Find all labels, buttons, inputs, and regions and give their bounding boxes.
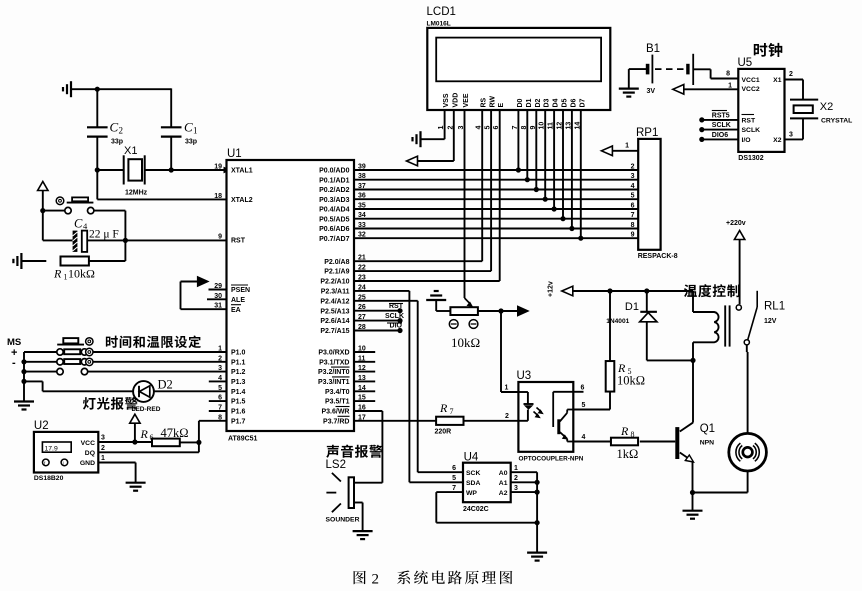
wire P3.1 stub [354,361,375,363]
svg-text:P1.2: P1.2 [231,369,246,376]
svg-text:5: 5 [582,402,586,409]
svg-text:P3.4/T0: P3.4/T0 [325,389,350,396]
wire button ground bus [21,352,26,402]
svg-text:RW: RW [490,96,497,108]
svg-text:1: 1 [64,273,68,282]
svg-text:DS18B20: DS18B20 [34,475,64,482]
node relay-D1-Q1 junction [690,358,695,363]
crystal X1 [124,155,145,184]
battery MS label [7,337,21,369]
svg-text:U5: U5 [738,57,753,69]
U3 phototransistor [553,392,573,442]
svg-text:12: 12 [557,122,564,130]
svg-text:R: R [439,401,448,415]
wire U2 GND [98,463,135,483]
resistor R8 1k [611,438,638,446]
relay RL1 coil [693,305,730,346]
resistor R7 220R [436,417,519,425]
svg-text:P2.3/A11: P2.3/A11 [321,289,350,296]
wire U3 pin6 stub [573,391,583,393]
svg-text:33p: 33p [185,139,197,146]
relay RL1 switch [736,291,757,345]
wire P1.5 stub [209,400,227,402]
svg-text:X2: X2 [773,137,782,144]
svg-text:1: 1 [505,385,509,392]
svg-text:30: 30 [214,293,222,300]
svg-text:SCLK: SCLK [712,122,731,129]
svg-text:5: 5 [631,193,635,200]
crystal X1 label [124,145,148,197]
wire P1.3 stub [209,380,227,382]
svg-text:7: 7 [450,407,454,416]
resistor R6 47k [98,439,199,447]
ground (U4) [527,553,547,561]
svg-text:2: 2 [101,445,105,452]
svg-text:P0.4/AD4: P0.4/AD4 [319,207,349,214]
eeprom U4 body [463,452,511,514]
svg-text:11: 11 [548,122,555,130]
svg-text:D2: D2 [535,98,542,107]
svg-text:D5: D5 [562,98,569,107]
wire top rail [71,88,171,90]
svg-text:9: 9 [530,126,537,130]
node rail-C2 junction [95,87,100,92]
svg-text:U4: U4 [464,452,479,464]
svg-text:SCLK: SCLK [385,313,404,320]
node pot output [498,308,503,313]
resistor-pack RP1 [636,127,678,260]
U1 right pin labels [318,164,366,426]
label wendukongzhi (temperature control) [684,284,740,297]
svg-text:RS: RS [481,97,488,107]
wire U4 A1 [511,480,540,485]
svg-text:2: 2 [631,164,635,171]
svg-text:3: 3 [514,485,518,492]
power arrow U5 VCC2 [673,85,739,95]
ground (U2) [126,483,146,491]
clock U5 DS1302 body [738,57,785,162]
svg-text:19: 19 [214,164,222,171]
resistor R6 label [140,426,189,442]
svg-text:VCC1: VCC1 [742,77,760,84]
temperature sensor U2 DS18B20 [34,432,98,473]
switch button S3 (P1.2) [24,368,227,374]
svg-text:U3: U3 [517,370,532,382]
transistor Q1 label [700,423,715,447]
svg-text:RST5: RST5 [712,113,730,120]
wire switch to motor [746,345,749,433]
svg-text:P2.0/A8: P2.0/A8 [324,259,349,266]
caption figure 2 [354,570,513,587]
svg-text:DQ: DQ [85,450,95,457]
svg-text:P0.2/AD2: P0.2/AD2 [319,187,349,194]
led D2 label [132,378,173,414]
svg-text:U1: U1 [227,148,242,160]
potentiometer value label [451,335,480,350]
svg-text:PSEN: PSEN [231,287,250,294]
svg-text:2: 2 [372,572,380,588]
svg-text:VCC: VCC [81,440,95,447]
wire P2.4 to SCK [354,301,463,472]
wire U4 A0 [511,472,537,552]
optocoupler U3 body [517,370,584,463]
svg-text:RP1: RP1 [636,127,658,139]
crystal X2 label [820,101,853,125]
svg-text:31: 31 [214,303,222,310]
svg-text:P3.7/RD: P3.7/RD [323,418,349,425]
svg-text:10kΩ: 10kΩ [68,267,95,281]
wire P3.6 to sounder [354,411,383,483]
led D2 [133,381,226,402]
label shijian (time/limit setting) [106,335,201,348]
svg-text:VEE: VEE [463,93,470,107]
svg-text:P2.7/A15: P2.7/A15 [320,328,349,335]
ground (crystal cap rail) [63,81,71,97]
svg-text:X2: X2 [820,101,833,113]
wire reset button to C4 node [124,211,126,241]
wire P1.4 jog [24,381,133,391]
svg-text:P0.5/AD5: P0.5/AD5 [319,216,349,223]
op-amp U1 AT89C51 body [227,148,355,443]
power arrow EA loop [181,277,227,310]
svg-text:RST: RST [231,238,246,245]
node XTAL1-C1 junction [169,167,174,172]
U2 labels [34,420,105,482]
svg-text:VCC2: VCC2 [742,86,760,93]
svg-text:XTAL1: XTAL1 [231,168,253,175]
svg-text:I/O: I/O [742,137,751,144]
node emitter-motor junction [690,490,695,495]
svg-text:RESPACK-8: RESPACK-8 [638,253,678,260]
power arrow LCD VDD [407,110,454,166]
wire P3.4 stub [354,390,375,392]
svg-text:1: 1 [101,455,105,462]
wire LCD RW [354,110,491,271]
svg-text:18: 18 [214,193,222,200]
wire U5 DIO [699,130,738,142]
svg-text:7: 7 [631,212,635,219]
diode D1 1N4001 [640,291,693,360]
wire LCD data drops D0-D7 [516,110,584,241]
svg-text:C: C [110,120,119,135]
node reset-button junction [40,208,45,213]
node D1 top junction [644,288,649,293]
wire PSEN stub [209,289,227,291]
net RST stub [354,303,404,313]
svg-text:13: 13 [565,122,572,130]
svg-text:A0: A0 [499,470,508,477]
svg-text:2: 2 [514,475,518,482]
net SCLK stub [354,313,404,323]
svg-text:1: 1 [514,465,518,472]
svg-text:5: 5 [452,475,456,482]
svg-text:2: 2 [789,71,793,78]
svg-text:10kΩ: 10kΩ [451,335,480,350]
node XTAL1-C2 junction [95,167,100,172]
svg-text:P1.5: P1.5 [231,399,246,406]
wire Q1 emitter [692,462,694,493]
wire C1 drop [170,88,172,127]
svg-text:10: 10 [539,122,546,130]
motor M [729,433,767,471]
power arrow VCC reset [38,182,48,211]
U4 pin labels [452,465,518,497]
svg-text:X1: X1 [124,145,137,157]
U5 pin labels [726,71,793,145]
svg-text:3V: 3V [647,88,656,95]
svg-text:NPN: NPN [700,440,714,447]
resistor R1 10k [13,240,125,269]
svg-text:1: 1 [625,143,629,150]
wire P3.7 row [354,420,436,422]
power arrow +12v [548,281,694,297]
svg-text:D6: D6 [570,98,577,107]
svg-text:OPTOCOUPLER-NPN: OPTOCOUPLER-NPN [519,456,584,463]
svg-text:SCK: SCK [466,470,480,477]
resistor R5 10k [606,291,615,410]
power arrow RP1 pin1 [601,143,638,156]
svg-text:C: C [74,217,83,231]
svg-text:P3.0/RXD: P3.0/RXD [318,350,349,357]
wire XTAL2 jog [97,170,226,199]
wire P3.3 stub [354,380,375,382]
svg-text:DIO6: DIO6 [712,132,728,139]
wire DQ pull-up [98,421,226,453]
resistor R1 label [53,267,95,282]
wire relay feed [692,291,694,312]
svg-text:14: 14 [574,122,581,130]
svg-text:ALE: ALE [231,297,245,304]
svg-text:XTAL2: XTAL2 [231,197,253,204]
svg-text:9: 9 [631,232,635,239]
svg-text:Q1: Q1 [700,423,715,435]
wire U5 RST [699,111,738,123]
svg-text:29: 29 [214,283,222,290]
svg-text:9: 9 [218,234,222,241]
ground (buttons) [14,402,34,410]
transistor Q1 [640,427,694,462]
node WP-ground junction [535,520,540,525]
power arrow +220v [726,220,746,304]
svg-text:8: 8 [521,126,528,130]
svg-text:D0: D0 [517,98,524,107]
svg-text:VSS: VSS [443,93,450,107]
wire P3.5 stub [354,400,375,402]
wire LCD VEE [464,110,466,298]
capacitor C2 [87,89,108,170]
svg-text:SDA: SDA [466,480,480,487]
svg-text:22 μ F: 22 μ F [89,229,119,241]
svg-text:P2.4/A12: P2.4/A12 [320,298,349,305]
svg-text:WP: WP [466,490,477,497]
label shengyin (sound alarm) [326,445,382,458]
resistor R5 label [617,361,645,388]
svg-text:D7: D7 [579,98,586,107]
svg-text:P0.6/AD6: P0.6/AD6 [319,226,349,233]
svg-text:3: 3 [101,435,105,442]
potentiometer RV 10k [436,298,501,315]
svg-text:D1: D1 [625,301,639,313]
wire XTAL1 row [97,167,231,174]
wire reset bus [43,211,73,241]
wire U4 WP loop [436,492,537,523]
svg-text:7: 7 [512,126,519,130]
U3 pin numbers [505,385,586,442]
node RST junction [123,238,128,243]
svg-text:6: 6 [631,203,635,210]
wire P3.2 stub [354,371,375,373]
svg-text:33p: 33p [111,139,123,146]
svg-text:6: 6 [581,385,585,392]
svg-text:EA: EA [231,307,241,314]
svg-text:D1: D1 [526,98,533,107]
svg-text:P0.3/AD3: P0.3/AD3 [319,197,349,204]
svg-text:LM016L: LM016L [427,21,451,28]
wire sounder to ground [354,503,363,532]
wire relay to node [692,342,694,360]
lcd LCD1 body [427,6,611,110]
resistor R8 label [617,424,639,461]
resistor R7 label [435,401,510,436]
svg-text:8: 8 [631,430,635,439]
svg-text:+220v: +220v [726,220,746,227]
svg-text:P3.6/WR: P3.6/WR [321,409,349,416]
svg-text:P2.1/A9: P2.1/A9 [324,269,349,276]
svg-text:10kΩ: 10kΩ [617,374,645,388]
svg-text:4: 4 [631,183,635,190]
svg-text:DS1302: DS1302 [738,155,763,162]
svg-text:+12v: +12v [548,281,555,297]
ground (LS2) [353,531,373,539]
svg-text:E: E [498,103,505,108]
svg-text:P3.5/T1: P3.5/T1 [325,399,350,406]
svg-text:8: 8 [631,222,635,229]
svg-text:2: 2 [505,413,509,420]
wire P2.3 to SDA [354,291,463,482]
capacitor C2 label [110,120,124,146]
RP1 pin numbers 2-9 [631,164,635,239]
LCD pin labels [438,93,586,130]
wire U4 A2 [511,490,540,495]
svg-text:P2.6/A14: P2.6/A14 [320,318,349,325]
svg-text:D4: D4 [553,98,560,107]
wire ALE stub [207,298,227,300]
svg-text:l: l [63,461,64,466]
capacitor C1 label [184,120,198,146]
svg-text:4: 4 [582,434,586,441]
speaker LS2 sounder [326,473,354,512]
wire P3.0 stub [354,351,375,353]
svg-text:RST: RST [742,118,756,125]
battery B1 label [646,43,660,95]
svg-text:A1: A1 [499,480,508,487]
svg-text:RL1: RL1 [764,301,785,313]
U1 left pin labels [214,164,253,426]
wire LCD E [354,110,500,281]
wire pot to U3 pin1 [501,311,518,392]
svg-text:P1.3: P1.3 [231,379,246,386]
node R6-DQ junction [196,440,201,445]
svg-text:-: - [12,357,16,369]
label shizhong (clock) [754,43,783,57]
wire U3 pin4 to R8 [573,441,611,443]
svg-text:SCLK: SCLK [742,127,761,134]
svg-text:P0.0/AD0: P0.0/AD0 [319,168,349,175]
wire motor to emitter [693,471,748,493]
potentiometer marks [449,320,478,329]
svg-text:R: R [140,427,149,441]
wire U5 SCLK [699,120,738,132]
svg-text:1: 1 [193,126,198,136]
svg-text:CRYSTAL: CRYSTAL [821,118,852,125]
svg-text:12V: 12V [764,318,777,325]
svg-text:X1: X1 [773,77,782,84]
node R5 top junction [607,288,612,293]
diode D1 label [606,301,639,325]
svg-text:1kΩ: 1kΩ [617,447,639,461]
svg-text:P3.2/INT0: P3.2/INT0 [318,369,350,376]
wire LCD RS [354,110,482,261]
svg-text:17.9: 17.9 [45,445,58,452]
svg-text:P2.5/A13: P2.5/A13 [320,308,349,315]
svg-text:1N4001: 1N4001 [606,318,629,325]
ground (LCD VSS) [413,110,445,147]
svg-text:6: 6 [452,465,456,472]
svg-text:P3.1/TXD: P3.1/TXD [319,359,349,366]
svg-text:AT89C51: AT89C51 [228,436,258,443]
power arrow pot output [501,306,529,316]
switch button S1 (P1.0) [24,338,227,356]
svg-text:P3.3/INT1: P3.3/INT1 [318,379,350,386]
wire P1.6 stub [209,410,227,412]
switch button S2 (P1.1) [24,358,227,365]
capacitor C4 label [74,217,119,241]
svg-text:GND: GND [80,460,95,467]
svg-text:P1.0: P1.0 [231,350,246,357]
svg-text:VDD: VDD [452,93,459,108]
node VCC-R6 junction [132,439,137,444]
ground (pot) [426,291,446,311]
svg-text:24C02C: 24C02C [463,506,489,513]
svg-text:47kΩ: 47kΩ [161,426,189,440]
ground (battery B1) [619,69,639,97]
capacitor C4 22uF [73,231,227,252]
switch reset button [43,197,126,214]
capacitor C1 [161,127,182,170]
svg-text:A2: A2 [499,490,508,497]
U3 led [518,392,543,421]
svg-text:D2: D2 [158,378,173,392]
relay RL1 label [764,301,785,326]
svg-text:LCD1: LCD1 [427,6,456,18]
svg-text:P1.6: P1.6 [231,409,246,416]
svg-text:8: 8 [726,71,730,78]
wire U3 pin5 to R5 [573,409,610,411]
wire P0 bus rows [354,170,638,238]
svg-text:12MHz: 12MHz [125,190,148,197]
ground (Q1) [683,493,703,519]
wire Q1 collector [680,360,693,431]
svg-text:P2.2/A10: P2.2/A10 [320,279,349,286]
net DIO stub [354,323,403,334]
speaker LS2 labels [326,459,360,524]
power arrow LED [130,414,140,442]
svg-text:P1.7: P1.7 [231,418,246,425]
svg-text:3: 3 [789,132,793,139]
svg-text:P0.1/AD1: P0.1/AD1 [319,177,349,184]
svg-text:U2: U2 [34,420,49,432]
svg-text:P0.7/AD7: P0.7/AD7 [319,236,349,243]
